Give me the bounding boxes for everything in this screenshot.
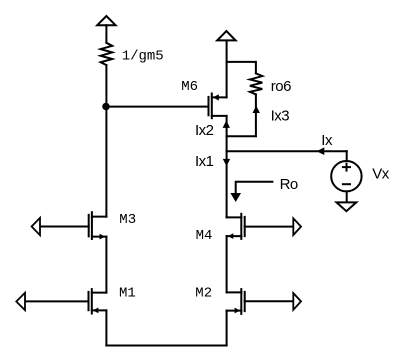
- svg-text:Ix3: Ix3: [271, 108, 290, 125]
- svg-text:1/gm5: 1/gm5: [122, 49, 164, 65]
- svg-text:Ix1: Ix1: [195, 153, 214, 170]
- svg-text:M3: M3: [119, 212, 136, 228]
- svg-text:M1: M1: [119, 285, 136, 301]
- svg-text:Ix2: Ix2: [195, 122, 214, 139]
- svg-text:Ro: Ro: [280, 176, 298, 193]
- svg-text:M2: M2: [195, 285, 212, 301]
- svg-text:ro6: ro6: [271, 78, 291, 95]
- svg-text:Vx: Vx: [372, 165, 390, 182]
- svg-text:M6: M6: [181, 79, 198, 95]
- svg-text:Ix: Ix: [321, 132, 333, 149]
- svg-text:M4: M4: [196, 228, 213, 244]
